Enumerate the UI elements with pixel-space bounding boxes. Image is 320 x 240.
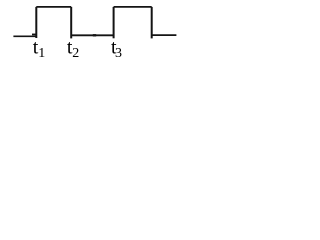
wire: second rising edge at t3 (crosses below axis) [113, 7, 115, 38]
svg-text:2: 2 [72, 46, 79, 61]
wire: trailing low segment [152, 34, 177, 36]
wire: leading axis segment before first rising edge [13, 35, 36, 37]
junction blob on low segment [93, 34, 96, 36]
wire: second falling edge (crosses below axis) [151, 7, 153, 39]
wire: low level between pulses [71, 34, 113, 36]
wire: top of second pulse [114, 6, 152, 8]
wire: falling edge at t2 (crosses below axis) [70, 7, 72, 39]
svg-text:1: 1 [38, 46, 45, 61]
wire: first rising edge at t1 (crosses below axis) [35, 7, 37, 38]
svg-text:3: 3 [115, 46, 122, 61]
wire: top of first pulse [36, 6, 71, 8]
wire: low-level stub overlapping axis near first rising edge [32, 33, 36, 35]
